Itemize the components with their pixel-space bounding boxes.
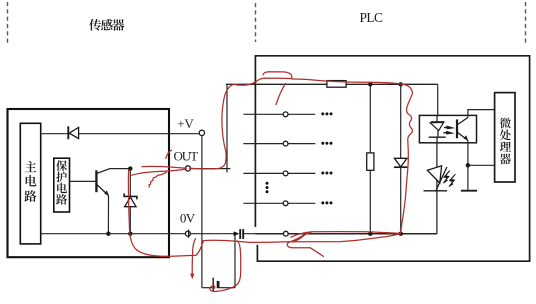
wire: 0V to capacitor with arrowhead xyxy=(190,231,239,236)
red annotation: zener vertical trace xyxy=(128,171,129,232)
wire: 0V rail inside sensor xyxy=(41,233,186,235)
red annotation: hook above zener diagonal xyxy=(166,150,172,158)
resistor R1 (input series, on top rail) xyxy=(327,81,346,88)
red annotation: diagonal from zener to OUT level xyxy=(142,166,187,168)
red annotation: branch diagonal at PLC top-left xyxy=(276,84,286,105)
dashed boundary line right (PLC region) xyxy=(525,2,527,45)
PLC outer box xyxy=(255,56,529,261)
main-circuit block 主电路 xyxy=(20,123,40,244)
junction: R2 bottom at rail xyxy=(368,232,372,236)
red annotation: Z-branch tip xyxy=(310,248,324,257)
sensor outer box xyxy=(8,109,170,257)
opto LED (tilted, inside U1) xyxy=(429,115,446,142)
junction: emitter node xyxy=(466,163,470,167)
vertical ellipsis between row 4 and COM xyxy=(266,182,269,194)
red annotation: upper loop stroke xyxy=(263,72,292,79)
indicator LED light arrows (lightning) xyxy=(443,171,455,188)
diode D1 (reverse protection, cathode left) xyxy=(68,126,78,139)
svg-text:+V: +V xyxy=(177,116,194,131)
red annotation: spur to COM rail xyxy=(295,234,307,242)
dashed boundary line middle (sensor/PLC divider) xyxy=(255,3,257,42)
wire: corner vertical up to PLC top rail xyxy=(226,84,228,172)
battery B1 xyxy=(213,278,218,292)
junction: emitter at 0V rail xyxy=(106,232,110,236)
PLC bottom rail (COM) xyxy=(255,233,437,235)
wire: top rail corner down to optocoupler xyxy=(437,84,439,115)
wire: capacitor to PLC COM terminal xyxy=(244,233,283,235)
junction node A (collector/zener) xyxy=(128,166,132,170)
wire: +V terminal down (to battery) xyxy=(201,136,203,288)
input row 1: stub, terminal circle, line, ellipsis xyxy=(243,112,332,117)
capacitor C1 (line filter) xyxy=(240,229,243,239)
ground bar xyxy=(461,190,477,192)
wire: zener to 0V rail xyxy=(129,207,131,234)
terminal OUT xyxy=(185,166,190,171)
red annotation: ascent along corner wire to top rail xyxy=(222,84,234,152)
wire: emitter down to 0V rail xyxy=(107,196,109,234)
opto phototransistor xyxy=(457,118,468,141)
red annotation: cusp below OUT wire xyxy=(149,172,166,187)
junction: D3 top at rail xyxy=(399,82,403,86)
dashed boundary line left (sensor region) xyxy=(7,2,9,45)
transistor Q1 (NPN output) xyxy=(96,169,109,196)
svg-text:OUT: OUT xyxy=(174,149,199,164)
red annotation: descent beside opto and diode column xyxy=(401,93,413,234)
terminal 0V (circle with bar) xyxy=(185,230,190,238)
indicator LED D4 (on COM rail riser) xyxy=(424,143,448,234)
red annotation: battery loop xyxy=(210,241,241,292)
terminal COM circle xyxy=(283,231,288,236)
opto light arrows xyxy=(443,126,455,135)
wire: collector to node A xyxy=(110,168,131,170)
red annotation: loop stroke through OUT xyxy=(190,152,227,169)
junction: R2 top at rail xyxy=(368,82,372,86)
input row 2: stub, terminal circle, line, ellipsis xyxy=(243,141,332,146)
red annotation: lower diagonal to OUT circle xyxy=(132,169,185,175)
input row 3: stub, terminal circle, line, ellipsis xyxy=(243,171,332,176)
junction: zener at 0V rail xyxy=(128,232,132,236)
resistor R2 (vertical) with wires xyxy=(367,84,374,233)
wire: battery bottom run xyxy=(202,287,212,289)
wire: base line from protection circuit to transistor xyxy=(70,180,96,182)
diode D3 (vertical, cathode down) with wires xyxy=(394,84,407,233)
wire: battery to riser xyxy=(219,287,235,289)
wire: opto emitter down to ground node xyxy=(467,140,469,190)
wire: riser up to 0V line at capacitor xyxy=(234,234,236,288)
protection-circuit block 保护电路 xyxy=(54,158,70,212)
wire: OUT to corner xyxy=(191,168,231,170)
wire: +V line from main circuit to +V terminal xyxy=(41,133,200,135)
label: 传感器 (sensor region title) xyxy=(89,19,124,31)
red annotation: sensor-bottom sweep xyxy=(130,232,204,257)
svg-text:0V: 0V xyxy=(180,210,196,225)
PLC top rail xyxy=(226,83,438,85)
red annotation: down arrow at 0V xyxy=(192,239,195,276)
input row 4: stub, terminal circle, line, ellipsis xyxy=(243,201,332,206)
terminal +V xyxy=(199,130,204,135)
microprocessor box 微处理器 xyxy=(495,93,515,182)
optocoupler U1 box xyxy=(419,115,476,142)
wire: emitter node to microprocessor xyxy=(468,164,495,166)
svg-text:PLC: PLC xyxy=(360,10,384,25)
red annotation: run along bottom rail xyxy=(291,232,400,238)
red annotation: lower bottom run xyxy=(204,234,401,243)
red annotation: top rail run with loop xyxy=(234,78,291,85)
wire: opto collector up and right to microprocessor xyxy=(468,110,495,118)
junction: D3 bottom at rail xyxy=(399,232,403,236)
wire: node A down to zener xyxy=(129,169,131,197)
zener diode D2 (clamp) xyxy=(124,193,137,206)
